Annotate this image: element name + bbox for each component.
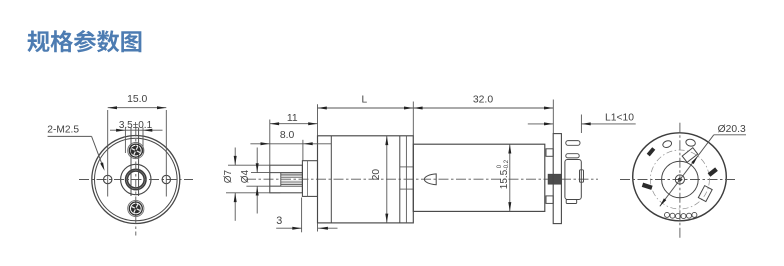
main centerline xyxy=(246,178,598,180)
svg-text:15.0: 15.0 xyxy=(127,94,147,105)
dia4 dim line xyxy=(256,148,258,173)
ext line 8.0 right xyxy=(302,140,304,161)
brush cap bottom lip xyxy=(566,200,577,204)
dim 20 arrows xyxy=(385,136,388,145)
left view inner rim circle xyxy=(95,138,178,221)
svg-text:L: L xyxy=(361,95,367,106)
M2.5 mounting hole right xyxy=(162,175,170,183)
dim 3 ext lines xyxy=(301,198,303,233)
right view hub circle xyxy=(662,161,699,198)
right view horizontal centerline xyxy=(620,179,737,181)
screw bottom (phillips) xyxy=(128,200,144,216)
window rect bottom-right xyxy=(698,186,712,202)
dim L1 right arrow xyxy=(581,122,590,125)
dim 15.0 extension lines xyxy=(108,110,167,197)
svg-text:15.5: 15.5 xyxy=(499,169,510,189)
right view pitch circle dashed xyxy=(650,150,709,209)
ext line shaft tip xyxy=(269,120,271,166)
window rect top xyxy=(682,148,698,163)
dim 15.5 arrows xyxy=(508,144,511,153)
ext line L right / motor face ext xyxy=(412,102,414,145)
dim 3.5 line xyxy=(110,129,163,131)
svg-text:32.0: 32.0 xyxy=(473,94,493,105)
dim 3.5 extension line left xyxy=(124,128,126,154)
gearbox body xyxy=(318,136,414,223)
svg-text:Ø4: Ø4 xyxy=(240,169,251,183)
dia7 ext bottom xyxy=(226,192,280,194)
shaft flat line left xyxy=(130,128,132,197)
knurl lines xyxy=(281,174,303,184)
dim 20 line xyxy=(386,136,388,223)
shaft D4 bottom edge xyxy=(270,185,303,187)
dim 15.0 arrows xyxy=(108,106,117,109)
dia7 arrows xyxy=(234,156,237,165)
dim 15.0 line xyxy=(108,107,167,109)
rear boss bump xyxy=(580,170,584,182)
gearbox rear plate line 2 xyxy=(405,136,407,223)
dia7 ext top xyxy=(228,164,270,166)
shaft sleeve D7 xyxy=(270,165,303,193)
magnet bar left xyxy=(642,183,653,190)
knurl start tick xyxy=(280,173,282,187)
motor cone mark xyxy=(424,174,436,185)
boss inner line xyxy=(307,161,309,197)
svg-text:L1<10: L1<10 xyxy=(605,112,634,123)
rear plate xyxy=(553,134,561,224)
dim L line xyxy=(318,107,414,109)
svg-text:8.0: 8.0 xyxy=(280,130,295,141)
dim 32.0 line xyxy=(413,107,553,109)
dim 3.5 extension line right xyxy=(142,128,144,154)
dia 20.3 leader xyxy=(714,134,746,136)
right view vertical centerline xyxy=(679,123,681,238)
dim L1 right line xyxy=(581,123,635,125)
window ellipse left xyxy=(662,140,673,149)
svg-text:3.5±0.1: 3.5±0.1 xyxy=(119,120,153,131)
gearbox front plate line xyxy=(330,136,332,223)
ext line 32 right xyxy=(552,100,554,134)
M2.5 mounting hole left xyxy=(104,175,112,183)
terminal pill top xyxy=(566,141,580,146)
dim 32.0 arrows xyxy=(413,107,422,110)
gearbox left face ext xyxy=(317,104,319,136)
rear recess top line xyxy=(400,166,414,168)
svg-text:Ø20.3: Ø20.3 xyxy=(718,124,746,135)
dim 8.0 arrows xyxy=(261,142,270,145)
dim 3 arrow right xyxy=(319,227,328,230)
dia 20.3 leader arrows xyxy=(691,155,699,164)
title 规格参数图 (vector glyphs) xyxy=(27,30,141,52)
magnet bar upper-left xyxy=(647,147,656,156)
left view outer body circle xyxy=(92,136,180,224)
svg-text:11: 11 xyxy=(287,113,298,124)
bearing boss xyxy=(302,161,317,197)
dim 3 line right xyxy=(318,227,338,229)
dim 3 arrow left xyxy=(292,227,301,230)
rear recess bottom line xyxy=(400,188,414,190)
dia4 arrows xyxy=(256,163,259,172)
dim 11 line xyxy=(270,123,318,125)
svg-text:2-M2.5: 2-M2.5 xyxy=(47,124,79,135)
dim 11 arrows xyxy=(270,122,279,125)
left view horizontal centerline xyxy=(79,179,193,181)
motor rear tab top xyxy=(546,149,553,157)
motor can body xyxy=(413,144,545,211)
dia4 ext bottom xyxy=(246,185,280,187)
dim 3.5 arrows xyxy=(116,129,125,132)
dim L arrows xyxy=(318,107,327,110)
dim L1 left line xyxy=(528,123,554,125)
svg-text:Ø7: Ø7 xyxy=(223,169,234,183)
right view outer ellipse xyxy=(633,133,727,221)
svg-text:20: 20 xyxy=(371,169,382,181)
magnet bar right xyxy=(708,167,718,176)
vent holes xyxy=(665,212,697,218)
dim 3 line left xyxy=(276,227,301,229)
screw top (phillips) xyxy=(128,143,144,159)
dim L1 left arrow xyxy=(544,122,553,125)
left view vertical centerline xyxy=(135,127,137,236)
dim 8.0 line xyxy=(250,143,331,145)
ext line terminals xyxy=(580,115,582,134)
svg-text:-0.2: -0.2 xyxy=(504,159,510,170)
right view center circle xyxy=(675,175,684,184)
dia7 dim line xyxy=(234,148,236,166)
shaft D4 top edge xyxy=(270,172,303,174)
left view hub middle circle xyxy=(126,169,146,189)
rear shaft stub xyxy=(548,174,561,184)
terminal pill bottom xyxy=(566,154,579,158)
dim 15.5 line xyxy=(509,144,511,211)
left view hub bore circle xyxy=(127,171,144,188)
dia4 ext top xyxy=(251,172,270,174)
motor rear tab bottom xyxy=(546,196,553,204)
gearbox rear plate line xyxy=(399,136,401,223)
leader 2-M2.5 xyxy=(48,136,106,171)
left view hub outer circle xyxy=(121,164,151,194)
svg-text:3: 3 xyxy=(276,215,282,227)
window ellipse right xyxy=(685,138,696,147)
brush cap block xyxy=(565,160,581,200)
shaft flat line right xyxy=(138,128,140,197)
